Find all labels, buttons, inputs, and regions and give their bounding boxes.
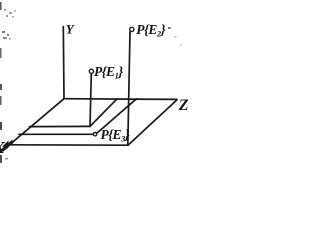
svg-text:P{E3}: P{E3} bbox=[101, 127, 130, 144]
svg-text:P{E2}: P{E2} bbox=[136, 22, 165, 39]
svg-text:Z: Z bbox=[178, 97, 189, 114]
svg-text:X: X bbox=[0, 138, 6, 157]
svg-text:Y: Y bbox=[66, 22, 75, 37]
svg-text:P{E1}: P{E1} bbox=[94, 64, 123, 81]
